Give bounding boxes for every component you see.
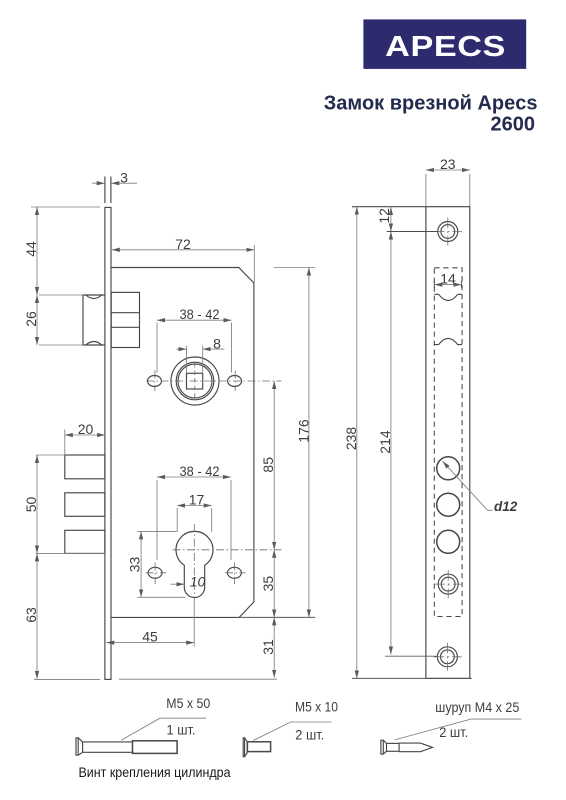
- svg-text:M5 x 50: M5 x 50: [166, 695, 210, 711]
- svg-text:85: 85: [260, 457, 276, 473]
- svg-text:31: 31: [260, 639, 276, 655]
- svg-text:2600: 2600: [491, 114, 536, 136]
- svg-text:44: 44: [23, 241, 39, 257]
- svg-text:50: 50: [23, 497, 39, 513]
- svg-text:8: 8: [213, 336, 221, 352]
- svg-text:d12: d12: [494, 499, 518, 514]
- svg-text:20: 20: [78, 421, 94, 437]
- svg-text:3: 3: [120, 169, 128, 185]
- svg-text:214: 214: [377, 430, 393, 454]
- svg-text:38 - 42: 38 - 42: [180, 463, 220, 479]
- svg-text:14: 14: [440, 271, 456, 287]
- svg-text:238: 238: [343, 427, 359, 451]
- svg-text:17: 17: [189, 492, 205, 508]
- svg-text:1 шт.: 1 шт.: [167, 722, 196, 738]
- svg-text:10: 10: [190, 573, 206, 589]
- svg-text:72: 72: [175, 236, 191, 252]
- svg-text:176: 176: [295, 419, 311, 443]
- svg-text:35: 35: [260, 576, 276, 592]
- svg-text:45: 45: [142, 629, 158, 645]
- svg-text:шуруп M4 x 25: шуруп M4 x 25: [435, 699, 519, 715]
- svg-text:M5 x 10: M5 x 10: [295, 699, 338, 715]
- svg-text:26: 26: [23, 311, 39, 327]
- svg-text:Замок врезной Apecs: Замок врезной Apecs: [324, 93, 538, 115]
- svg-text:33: 33: [127, 557, 143, 573]
- svg-text:23: 23: [440, 156, 456, 172]
- svg-text:2 шт.: 2 шт.: [295, 727, 324, 743]
- svg-text:2 шт.: 2 шт.: [439, 724, 468, 740]
- svg-text:38 - 42: 38 - 42: [180, 306, 220, 322]
- svg-text:12: 12: [376, 208, 392, 224]
- svg-text:Винт крепления цилиндра: Винт крепления цилиндра: [79, 765, 231, 780]
- svg-text:APECS: APECS: [385, 29, 506, 62]
- svg-text:63: 63: [23, 607, 39, 623]
